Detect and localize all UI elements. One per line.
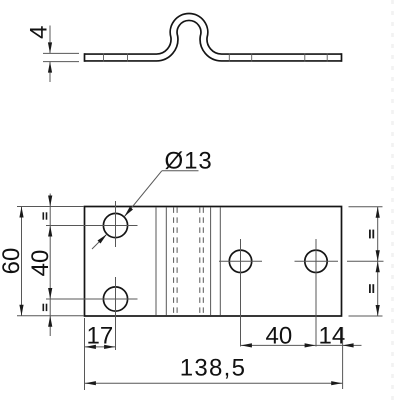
svg-text:138,5: 138,5 [180, 354, 247, 381]
svg-text:60: 60 [0, 248, 25, 275]
svg-text:40: 40 [266, 323, 293, 350]
svg-text:Ø13: Ø13 [165, 148, 213, 175]
svg-text:4: 4 [26, 26, 53, 39]
svg-text:40: 40 [27, 250, 54, 277]
svg-text:17: 17 [87, 323, 114, 350]
svg-text:14: 14 [319, 323, 346, 350]
